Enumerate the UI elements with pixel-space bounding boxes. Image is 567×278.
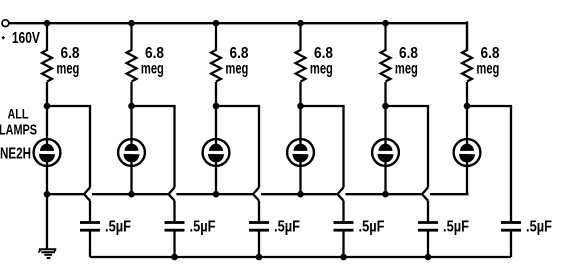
svg-text:.5µF: .5µF: [190, 219, 216, 236]
svg-text:.5µF: .5µF: [359, 219, 385, 236]
svg-text:meg: meg: [395, 61, 418, 78]
wire: coupling branch 4 vertical (above crossover): [342, 106, 344, 187]
wire: R6 bottom to node 6: [466, 82, 468, 106]
value label R3: 6.8 meg: [225, 45, 248, 78]
wire: C2 bottom lead: [173, 231, 175, 257]
neon lamp DS1 NE2H: [34, 106, 61, 194]
svg-text:.5µF: .5µF: [526, 219, 552, 236]
svg-text:meg: meg: [141, 61, 164, 78]
capacitor C4 .5uF: [334, 221, 354, 232]
wire: coupling branch 6 vertical to C6: [510, 106, 512, 222]
capacitor C1 .5uF: [80, 221, 100, 232]
svg-text:meg: meg: [56, 61, 79, 78]
svg-text:.5µF: .5µF: [274, 219, 300, 236]
wire: coupling branch 1 vertical (above crossover): [89, 106, 91, 187]
neon lamp DS6 NE2H: [454, 106, 481, 194]
value label R6: 6.8 meg: [476, 45, 499, 78]
wire: coupling branch 4 vertical to C4: [342, 201, 344, 222]
label: ALL LAMPS NE2H: [0, 106, 37, 163]
terminal J1 +160V input: [2, 20, 9, 27]
svg-text:ALL: ALL: [8, 106, 29, 122]
junction: top rail / R5: [382, 20, 389, 27]
wire: top rail corner down to R6: [466, 21, 468, 50]
resistor R2 6.8 meg: [127, 23, 137, 81]
svg-text:160V: 160V: [12, 30, 41, 47]
wire: R2 bottom to node 2: [130, 82, 132, 106]
crossover hop: branch 4 jumps ground bus: [338, 187, 344, 200]
wire: node 2 to coupling branch: [132, 105, 176, 107]
wire: R4 bottom to node 4: [299, 82, 301, 106]
ground symbol: [39, 249, 57, 258]
node 1 (lamp DS1 anode junction): [44, 103, 51, 110]
junction: C4 / bottom bus: [340, 254, 347, 261]
svg-text:meg: meg: [310, 61, 333, 78]
crossover hop: branch 3 jumps ground bus: [253, 187, 259, 200]
wire: coupling branch 2 vertical (above crossover): [173, 106, 175, 187]
value label R5: 6.8 meg: [395, 45, 418, 78]
wire: coupling branch 5 vertical (above crossover): [427, 106, 429, 187]
node 6 (lamp DS6 anode junction): [464, 103, 471, 110]
resistor R6 6.8 meg: [462, 23, 472, 81]
node 3 (lamp DS3 anode junction): [213, 103, 220, 110]
wire: node 1 to coupling branch: [47, 105, 91, 107]
resistor R4 6.8 meg: [296, 23, 306, 81]
wire: node 4 to coupling branch: [301, 105, 345, 107]
capacitor C3 .5uF: [249, 221, 269, 232]
wire: node 3 to coupling branch: [216, 105, 260, 107]
wire: C6 bottom lead: [510, 231, 512, 257]
neon lamp DS3 NE2H: [203, 106, 230, 194]
wire: coupling branch 2 vertical to C2: [173, 201, 175, 222]
wire: C5 bottom lead: [427, 231, 429, 257]
svg-text:6.8: 6.8: [145, 45, 164, 62]
junction: top rail / R4: [297, 20, 304, 27]
wire: coupling branch 3 vertical to C3: [258, 201, 260, 222]
junction: C3 / bottom bus: [256, 254, 263, 261]
svg-text:NE2H: NE2H: [0, 146, 31, 163]
resistor R3 6.8 meg: [211, 23, 221, 81]
wire: capacitor bottom bus: [90, 256, 511, 258]
svg-text:6.8: 6.8: [399, 45, 418, 62]
neon lamp DS2 NE2H: [118, 106, 145, 194]
neon lamp DS5 NE2H: [372, 106, 399, 194]
capacitor C6 .5uF: [501, 221, 521, 232]
junction: C5 / bottom bus: [425, 254, 432, 261]
svg-text:6.8: 6.8: [230, 45, 249, 62]
svg-text:6.8: 6.8: [61, 45, 80, 62]
wire: node 6 to coupling branch: [467, 105, 512, 107]
junction: DS1 cathode / ground bus: [44, 191, 51, 198]
node 2 (lamp DS2 anode junction): [128, 103, 135, 110]
value label R1: 6.8 meg: [56, 45, 79, 78]
wire: C4 bottom lead: [342, 231, 344, 257]
capacitor C5 .5uF: [418, 221, 438, 232]
svg-text:6.8: 6.8: [481, 45, 500, 62]
label +160V: [2, 30, 41, 47]
junction: top rail / R1: [44, 20, 51, 27]
junction: DS3 cathode / ground bus: [213, 191, 220, 198]
wire: C3 bottom lead: [258, 231, 260, 257]
svg-text:.5µF: .5µF: [443, 219, 469, 236]
neon lamp DS4 NE2H: [287, 106, 314, 194]
value label R2: 6.8 meg: [141, 45, 164, 78]
svg-text:LAMPS: LAMPS: [0, 122, 37, 139]
junction: DS5 cathode / ground bus: [382, 191, 389, 198]
wire: C1 bottom lead: [89, 231, 91, 257]
crossover hop: branch 5 jumps ground bus: [422, 187, 428, 200]
wire: node 5 to coupling branch: [386, 105, 430, 107]
svg-text:meg: meg: [225, 61, 248, 78]
wire: R1 bottom to node 1: [46, 82, 48, 106]
wire: ground bus (lamp cathode rail): [47, 193, 469, 195]
svg-text:6.8: 6.8: [314, 45, 333, 62]
wire: R5 bottom to node 5: [384, 82, 386, 106]
svg-text:meg: meg: [476, 61, 499, 78]
resistor R1 6.8 meg: [42, 23, 52, 81]
junction: top rail / R2: [128, 20, 135, 27]
crossover hop: branch 2 jumps ground bus: [169, 187, 175, 200]
junction: C2 / bottom bus: [171, 254, 178, 261]
wire: R3 bottom to node 3: [215, 82, 217, 106]
junction: DS2 cathode / ground bus: [128, 191, 135, 198]
wire: coupling branch 5 vertical to C5: [427, 201, 429, 222]
wire: coupling branch 1 vertical to C1: [89, 201, 91, 222]
crossover hop: branch 1 jumps ground bus: [84, 187, 90, 200]
junction: DS4 cathode / ground bus: [297, 191, 304, 198]
junction: top rail / R3: [213, 20, 220, 27]
wire: ground stem: [46, 194, 48, 249]
wire: +160V top supply rail: [9, 22, 469, 24]
node 5 (lamp DS5 anode junction): [382, 103, 389, 110]
svg-text:.5µF: .5µF: [105, 219, 131, 236]
node 4 (lamp DS4 anode junction): [297, 103, 304, 110]
capacitor C2 .5uF: [165, 221, 185, 232]
wire: coupling branch 3 vertical (above crossover): [258, 106, 260, 187]
value label R4: 6.8 meg: [310, 45, 333, 78]
resistor R5 6.8 meg: [381, 23, 391, 81]
